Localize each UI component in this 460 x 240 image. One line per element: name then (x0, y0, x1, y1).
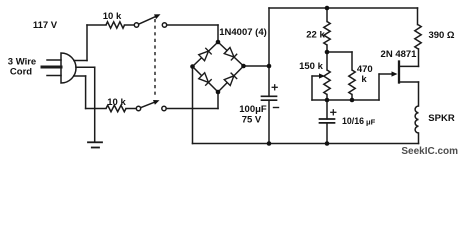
svg-text:22 k: 22 k (306, 30, 325, 41)
svg-text:10 k: 10 k (103, 11, 122, 22)
svg-text:1N4007 (4): 1N4007 (4) (219, 27, 267, 38)
svg-text:390 Ω: 390 Ω (428, 30, 454, 41)
svg-text:μF: μF (366, 118, 376, 127)
svg-text:Cord: Cord (10, 67, 32, 78)
svg-text:SeekIC.com: SeekIC.com (401, 146, 458, 157)
svg-text:100μF: 100μF (239, 104, 267, 115)
svg-text:10/16: 10/16 (342, 116, 364, 126)
svg-text:150 k: 150 k (299, 61, 323, 72)
svg-text:75 V: 75 V (242, 115, 262, 126)
svg-text:k: k (361, 74, 367, 85)
svg-text:SPKR: SPKR (428, 113, 455, 124)
svg-text:2N 4871: 2N 4871 (381, 49, 418, 60)
svg-text:10 k: 10 k (107, 97, 126, 108)
svg-text:117 V: 117 V (33, 20, 58, 31)
